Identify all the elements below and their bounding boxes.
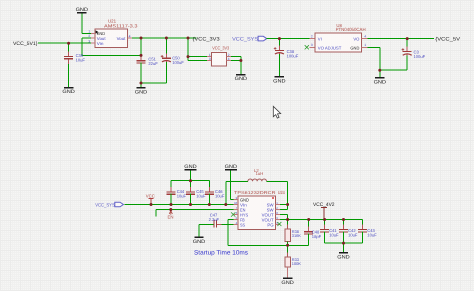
svg-text:GND: GND [281, 280, 294, 286]
svg-text:4: 4 [228, 57, 230, 61]
svg-text:100uF: 100uF [172, 60, 184, 65]
svg-text:1: 1 [88, 29, 90, 33]
svg-text:GND: GND [62, 89, 75, 95]
svg-text:{VCC_5V: {VCC_5V [435, 36, 461, 42]
svg-text:10uF: 10uF [215, 194, 225, 199]
svg-text:100K: 100K [292, 261, 301, 266]
svg-text:3: 3 [209, 57, 211, 61]
svg-text:1: 1 [364, 43, 366, 47]
svg-text:VCC_SYS: VCC_SYS [232, 36, 259, 42]
svg-text:SS: SS [240, 222, 245, 227]
svg-text:3: 3 [88, 39, 90, 43]
svg-text:GND: GND [184, 164, 197, 170]
svg-text:{VCC_3V3: {VCC_3V3 [193, 37, 220, 43]
svg-text:2.2uF: 2.2uF [209, 217, 220, 222]
svg-text:VO ADJUST: VO ADJUST [318, 45, 342, 50]
svg-text:U24: U24 [278, 190, 285, 195]
svg-text:10uF: 10uF [76, 58, 86, 63]
svg-text:10: 10 [234, 201, 238, 205]
svg-text:10uF: 10uF [348, 233, 358, 238]
svg-text:VCC_3V3: VCC_3V3 [212, 45, 229, 50]
svg-text:VO: VO [353, 37, 360, 42]
svg-text:3: 3 [311, 43, 313, 47]
svg-text:18pF: 18pF [312, 234, 322, 239]
svg-text:PTN04050CAH: PTN04050CAH [336, 27, 366, 32]
svg-text:22uF: 22uF [148, 61, 158, 66]
svg-text:4: 4 [129, 34, 131, 38]
svg-text:GND: GND [273, 78, 286, 84]
svg-text:10uF: 10uF [196, 194, 206, 199]
svg-text:GND: GND [135, 89, 148, 95]
svg-text:2: 2 [311, 34, 313, 38]
svg-text:GND: GND [193, 239, 206, 245]
svg-text:GND: GND [97, 31, 105, 36]
svg-text:100uF: 100uF [287, 53, 299, 58]
svg-text:VCC_5V1}: VCC_5V1} [13, 41, 38, 47]
svg-text:10uF: 10uF [329, 233, 339, 238]
svg-text:GND: GND [76, 7, 89, 13]
svg-text:GND: GND [350, 45, 359, 50]
svg-text:EN: EN [168, 215, 174, 220]
svg-text:AMS1117-3.3: AMS1117-3.3 [104, 24, 138, 29]
svg-text:VCC: VCC [146, 193, 155, 198]
svg-text:10uF: 10uF [177, 194, 187, 199]
svg-text:Vin: Vin [97, 41, 104, 46]
svg-text:Startup Time 10ms: Startup Time 10ms [194, 249, 248, 256]
svg-text:2: 2 [88, 34, 90, 38]
svg-text:10uF: 10uF [367, 233, 377, 238]
svg-text:TPS61232DRCR: TPS61232DRCR [234, 190, 276, 195]
svg-text:GND: GND [225, 164, 238, 170]
svg-text:100uF: 100uF [414, 54, 426, 59]
svg-text:1uH: 1uH [256, 171, 264, 176]
svg-text:GND: GND [374, 79, 387, 85]
svg-text:GND: GND [235, 76, 248, 82]
svg-text:4: 4 [364, 34, 366, 38]
svg-text:VCC_SYS: VCC_SYS [95, 202, 115, 208]
svg-text:GND: GND [337, 254, 350, 260]
svg-text:316K: 316K [292, 233, 301, 238]
svg-text:VI: VI [318, 37, 322, 42]
svg-text:Vout: Vout [117, 36, 127, 41]
svg-text:PG: PG [267, 222, 274, 227]
